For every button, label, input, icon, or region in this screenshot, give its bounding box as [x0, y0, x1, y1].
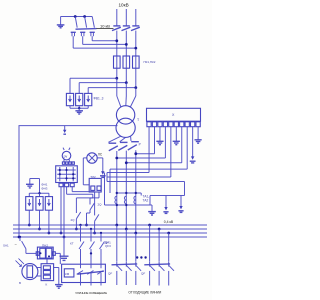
- fuse box FU street light: [36, 243, 55, 259]
- node fuse wire junction: [90, 252, 92, 254]
- svg-text:ПК1,ПК2: ПК1,ПК2: [144, 60, 156, 64]
- switch blade chain 2: [71, 212, 81, 230]
- svg-text:SA1: SA1: [3, 244, 9, 248]
- terminal ground arrow 4: [190, 127, 196, 163]
- outgoing breaker group 1 pole B: [126, 229, 131, 285]
- ground at earthing switch: [57, 17, 65, 28]
- wire earthing link to phase A: [92, 39, 118, 42]
- wire photocell to relay bottom: [37, 275, 42, 277]
- switch blade chain 3: [93, 214, 99, 234]
- terminal squares row: [147, 122, 200, 127]
- fuse FU3: [133, 56, 140, 88]
- node g2 B: [158, 228, 161, 231]
- disconnector QS1 pole B: [122, 26, 131, 56]
- svg-text:КМ: КМ: [65, 272, 70, 276]
- svg-text:2Q: 2Q: [98, 203, 103, 207]
- svg-text:10кВ: 10кВ: [119, 3, 129, 8]
- wire arrester tap C: [88, 86, 137, 89]
- node g2 A: [148, 224, 151, 227]
- svg-text:10 кВ: 10 кВ: [100, 23, 110, 28]
- wire lamp left to resistor: [83, 158, 89, 185]
- wire phase C top: [135, 9, 137, 26]
- LV switch QS2 pole A: [109, 143, 118, 225]
- signal lamp HL: [87, 153, 97, 163]
- meter terminal marks: [62, 162, 74, 164]
- svg-text:0,4 кВ: 0,4 кВ: [164, 220, 174, 224]
- label 10 kV arrow: [96, 23, 114, 28]
- node earthing tap 1: [74, 15, 77, 18]
- wire photocell to relay top: [37, 267, 42, 269]
- wire arrester common: [70, 107, 88, 111]
- svg-text:~: ~: [15, 242, 18, 247]
- wire PEN conductor horizontal: [19, 126, 118, 237]
- node PEN neutral: [18, 236, 21, 239]
- wire lamp resistor chain: [90, 194, 93, 204]
- bus PEN: [13, 236, 207, 238]
- wire selector chain 3: [72, 187, 94, 216]
- wire terminal to phase A: [115, 127, 165, 160]
- outgoing breaker group 1 pole C: [136, 233, 141, 285]
- switch SA street light feed: [15, 236, 37, 254]
- bus L1: [13, 224, 207, 226]
- ellipsis dots: [136, 256, 147, 258]
- fuse FU1: [114, 56, 121, 78]
- wire selector output 2: [63, 182, 66, 238]
- svg-text:В: В: [19, 281, 21, 285]
- svg-text:QF: QF: [141, 272, 145, 276]
- svg-text:ЛС: ЛС: [98, 153, 103, 157]
- resistor box TL: [89, 175, 101, 192]
- wire secondary ground arrow 2: [178, 196, 183, 213]
- breaker group 1 linkage bar: [112, 263, 138, 266]
- svg-text:ФН3: ФН3: [41, 186, 47, 190]
- LV arrester FV4: [26, 193, 33, 226]
- wire earthing link to phase B: [83, 43, 128, 46]
- wire selector output 1: [60, 187, 63, 235]
- current transformer TA1: [115, 196, 117, 204]
- svg-text:ПН2: ПН2: [42, 243, 48, 247]
- wire CT secondary bus: [105, 173, 153, 207]
- fuse FU2: [123, 56, 130, 83]
- relay K box: [41, 264, 54, 287]
- svg-text:Р: Р: [139, 143, 141, 147]
- node earthing tap 2: [83, 15, 86, 18]
- wire phase A top: [116, 9, 118, 26]
- earthing contact pole 2: [80, 32, 85, 44]
- disconnector QS1 pole A: [112, 26, 121, 56]
- svg-text:ТЛ2: ТЛ2: [90, 175, 96, 179]
- svg-text:2Q: 2Q: [71, 218, 76, 222]
- ground arrow on PEN: [63, 126, 66, 135]
- wire secondary ground arrow 1: [163, 196, 168, 214]
- wire CT top bracket: [116, 192, 142, 196]
- transformer T secondary circle: [116, 118, 135, 137]
- wire secondary ground bars: [148, 205, 156, 215]
- wire phase A to transformer: [116, 78, 118, 96]
- wire earthing link to phase C: [73, 47, 137, 50]
- wire phase C to transformer: [135, 88, 137, 96]
- switch blade chain 1: [85, 203, 102, 227]
- node phase A bus: [115, 224, 118, 227]
- bus L2: [13, 228, 207, 230]
- LV arrester FV5: [36, 193, 43, 230]
- wire arrester tap B: [79, 81, 128, 84]
- LV arrester FV6: [45, 193, 52, 234]
- wire terminal secondary loop 3: [107, 127, 171, 182]
- outgoing breaker group 2 pole B: [159, 229, 164, 286]
- surge arrester FV2: [76, 83, 83, 109]
- ground neutral street circuit: [60, 237, 69, 260]
- wire terminal secondary loop 1: [110, 127, 187, 193]
- LV switch QS2 pole B: [118, 142, 127, 229]
- wire fuse to relay: [46, 259, 48, 264]
- wire terminal to phase C: [134, 127, 154, 155]
- wire terminal secondary loop 2: [107, 127, 149, 173]
- earthing contact pole 3: [90, 32, 95, 41]
- wire terminal secondary loop 4: [107, 182, 185, 206]
- surge arrester FV1: [66, 78, 73, 108]
- earthing switch blade 3: [92, 17, 94, 28]
- wire resistor chain 2: [76, 192, 99, 213]
- current transformer TA2: [124, 196, 126, 204]
- earthing switch QSG bus: [61, 16, 93, 18]
- svg-text:QF3: QF3: [105, 244, 111, 248]
- earthing contact pole 1: [71, 32, 76, 48]
- street feed pole 2: [87, 228, 94, 286]
- wire selector output 3: [67, 187, 93, 195]
- svg-text:QF: QF: [108, 272, 112, 276]
- outgoing breaker group 1 pole A: [117, 225, 122, 285]
- wire fuse box to contactor coil: [55, 253, 60, 264]
- wire terminal to phase B: [125, 127, 182, 165]
- LV switch QS2 fan wires: [108, 136, 131, 142]
- surge arrester FV3: [85, 88, 92, 109]
- ground relay: [55, 285, 63, 289]
- contactor KM box: [62, 264, 106, 282]
- voltmeter PV: [62, 148, 71, 162]
- ground arrester: [75, 111, 83, 114]
- wire phase B to transformer: [125, 83, 127, 96]
- svg-text:К: К: [46, 283, 48, 287]
- wire arrester tap A: [70, 77, 118, 80]
- svg-text:УЛИЧНОЕ ОСВЕЩЕНИЕ: УЛИЧНОЕ ОСВЕЩЕНИЕ: [75, 291, 107, 295]
- breaker group 2 linkage bar: [144, 263, 170, 266]
- earthing switch closed bar: [76, 28, 97, 31]
- terminal ground 2: [173, 127, 180, 145]
- transformer T primary circle: [116, 96, 135, 124]
- svg-text:ФВ1..3: ФВ1..3: [94, 97, 104, 101]
- svg-text:ОТХОДЯЩИЕ ЛИНИИ: ОТХОДЯЩИЕ ЛИНИИ: [128, 291, 162, 295]
- terminal ground 3: [195, 127, 202, 144]
- earthing switch blade 2: [85, 17, 87, 28]
- street feed pole 3: [97, 232, 104, 286]
- wire phase B top: [125, 9, 127, 26]
- bus L3: [13, 232, 207, 234]
- selector switch box SN: [56, 166, 78, 183]
- earthing switch blade 1: [75, 17, 77, 28]
- LV arrester group ground: [26, 179, 40, 194]
- svg-text:КТ: КТ: [70, 242, 74, 246]
- node phase B bus: [125, 228, 128, 231]
- street feed pole 1: [77, 224, 84, 286]
- contactor KM linkage band: [78, 271, 104, 274]
- terminal block X: [147, 108, 201, 121]
- outgoing breaker group 2 pole C: [169, 233, 174, 286]
- selector output terminals: [59, 183, 74, 187]
- outgoing breaker group 2 pole A: [150, 225, 155, 286]
- svg-text:ТА2: ТА2: [143, 198, 149, 202]
- current transformer TA3: [134, 196, 136, 204]
- disconnector QS1 pole C: [131, 26, 140, 56]
- svg-text:pv: pv: [64, 154, 68, 158]
- svg-text:ДН: ДН: [105, 241, 109, 245]
- node g2 C: [167, 232, 170, 235]
- photocell B: [16, 259, 38, 286]
- node phase C bus: [134, 232, 137, 235]
- svg-text:Х: Х: [172, 113, 175, 117]
- wire LV arrester jumper: [29, 192, 49, 194]
- LV switch QS2 pole C: [128, 142, 139, 233]
- svg-text:Т: Т: [137, 118, 140, 122]
- terminal ground 1: [156, 127, 163, 145]
- wire lamp right to ground: [97, 158, 105, 178]
- wire relay to ground: [54, 268, 59, 285]
